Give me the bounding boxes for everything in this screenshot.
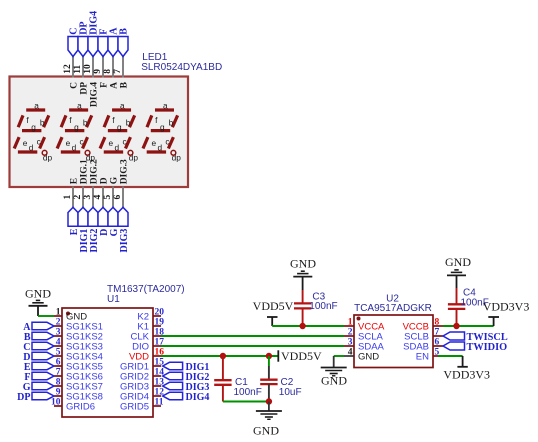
U1 pin 14 GRID2 stub	[153, 375, 161, 377]
digit 3 segment g	[108, 129, 127, 132]
wire GND to U1 pin 1	[38, 315, 54, 317]
svg-text:E: E	[69, 178, 79, 184]
svg-text:7: 7	[56, 368, 61, 378]
port flag DIG4 (U1 right)	[163, 392, 183, 399]
svg-text:a: a	[163, 100, 168, 110]
digit 1 dp circle	[42, 150, 47, 155]
U1 pin 3 SG1KS2 stub	[54, 335, 62, 337]
port flag C (U1 left)	[32, 342, 54, 349]
svg-text:d: d	[157, 143, 162, 153]
U2 pin-1 marker	[357, 317, 361, 321]
svg-text:12: 12	[63, 64, 73, 74]
7-segment digit 1 segment a	[26, 108, 45, 111]
digit 4 segment c	[168, 137, 173, 148]
ground symbol above C4	[454, 269, 458, 271]
U2 pin 2 SCLA stub	[344, 335, 354, 337]
svg-text:10: 10	[51, 398, 61, 408]
port flag E (U1 left)	[32, 362, 54, 369]
port flag DIG4 (top)	[88, 37, 98, 57]
svg-text:2: 2	[73, 195, 83, 200]
U1 pin 19 K1 stub	[153, 325, 161, 327]
port flag G (U1 left)	[32, 382, 54, 389]
svg-text:A: A	[109, 82, 119, 89]
port flag DIG3 (U1 right)	[163, 382, 183, 389]
port flag F (U1 left)	[32, 372, 54, 379]
svg-text:G: G	[109, 176, 119, 184]
U1 pin 9 SG1KS8 stub	[54, 395, 62, 397]
svg-text:1: 1	[63, 195, 73, 200]
svg-text:19: 19	[155, 318, 165, 328]
junction at C2 bottom	[266, 398, 272, 404]
LED1 bottom pin 5 wire	[112, 187, 114, 208]
svg-text:8: 8	[56, 378, 61, 388]
svg-text:5: 5	[103, 195, 113, 200]
U2 pin 5 EN stub	[433, 355, 443, 357]
U1 pin 10 GRID6 stub	[54, 405, 62, 407]
U1 pin 20 K2 stub	[153, 315, 161, 317]
digit 2 segment b	[87, 115, 92, 127]
svg-text:g: g	[31, 122, 36, 132]
svg-text:7: 7	[435, 328, 440, 338]
wire VCCB to VDD3V3	[443, 325, 494, 327]
digit 3 segment f	[104, 115, 109, 127]
digit 1 segment g	[22, 129, 41, 132]
port flag DIG2 (bottom)	[88, 207, 98, 226]
svg-text:DIG.3: DIG.3	[119, 159, 129, 184]
junction at C2 top	[266, 353, 272, 359]
svg-text:6: 6	[56, 358, 61, 368]
svg-text:e: e	[109, 138, 114, 148]
junction at C1 top	[220, 353, 226, 359]
svg-text:4: 4	[93, 195, 103, 200]
U1 pin 13 GRID3 stub	[153, 385, 161, 387]
svg-text:g: g	[117, 122, 122, 132]
svg-text:1: 1	[56, 308, 61, 318]
U2 pin 8 VCCB stub	[433, 325, 443, 327]
power flag VDD3V3 (bottom)	[462, 356, 464, 367]
svg-text:B: B	[119, 81, 129, 88]
digit 4 segment b	[172, 115, 177, 127]
svg-text:DP: DP	[79, 82, 89, 95]
svg-text:GND: GND	[321, 374, 347, 388]
digit 4 segment g	[151, 129, 170, 132]
U2 pin 3 SDAA stub	[344, 345, 354, 347]
svg-text:F: F	[99, 82, 109, 88]
svg-text:TM1637(TA2007): TM1637(TA2007)	[107, 284, 185, 295]
port flag A (U1 left)	[32, 322, 54, 329]
svg-text:3: 3	[83, 195, 93, 200]
IC U2 TCA9517ADGKR body	[354, 315, 433, 368]
ground symbol below C2	[268, 402, 270, 412]
LED1 bottom pin 6 wire	[122, 187, 124, 208]
digit 4 segment e	[143, 137, 148, 148]
U1 pin 6 SG1KS5 stub	[54, 365, 62, 367]
svg-text:GND: GND	[445, 255, 471, 269]
capacitor C4	[456, 288, 458, 304]
U2 pin 4 GND stub	[344, 355, 354, 357]
svg-text:VDD3V3: VDD3V3	[443, 367, 490, 381]
U1 pin 15 GRID1 stub	[153, 365, 161, 367]
svg-text:100nF: 100nF	[234, 387, 262, 398]
svg-text:2: 2	[348, 328, 353, 338]
svg-text:e: e	[66, 138, 71, 148]
svg-text:d: d	[72, 143, 77, 153]
U2 pin 7 SCLB stub	[433, 335, 443, 337]
U1 pin 5 SG1KS4 stub	[54, 355, 62, 357]
capacitor C3	[302, 290, 304, 303]
wire C1 bottom to C2 bottom	[223, 401, 269, 403]
svg-text:g: g	[74, 122, 79, 132]
svg-text:9: 9	[93, 69, 103, 74]
7-segment digit 4 segment a	[155, 108, 174, 111]
svg-text:2: 2	[56, 318, 61, 328]
svg-text:EN: EN	[416, 352, 429, 363]
wire EN to VDD3V3	[438, 355, 463, 357]
port flag DIG1 (U1 right)	[163, 362, 183, 369]
port flag B (top)	[118, 37, 128, 57]
svg-text:10: 10	[83, 64, 93, 74]
ground symbol above C3	[301, 270, 305, 272]
power flag VDD3V3 (top)	[488, 316, 499, 318]
svg-text:10uF: 10uF	[279, 387, 302, 398]
U1 pin 4 SG1KS3 stub	[54, 345, 62, 347]
digit 1 segment b	[44, 115, 49, 127]
svg-text:3: 3	[56, 328, 61, 338]
svg-text:GND: GND	[290, 257, 316, 271]
digit 2 dp circle	[85, 150, 90, 155]
IC U1 TM1637 body	[62, 308, 153, 417]
port flag B (U1 left)	[32, 332, 54, 339]
svg-text:c: c	[122, 137, 126, 147]
port flag DIG2 (U1 right)	[163, 372, 183, 379]
svg-text:g: g	[160, 122, 165, 132]
digit 1 segment c	[40, 137, 45, 148]
wire VDD5V to U2 pin 1	[272, 325, 344, 327]
U1 pin 17 DIO stub	[153, 345, 161, 347]
U1 pin 1 GND stub	[54, 315, 62, 317]
U2 pin 6 SDAB stub	[433, 345, 443, 347]
capacitor C1	[222, 356, 224, 380]
port flag C (top)	[68, 37, 78, 57]
port flag DIG3 (bottom)	[118, 207, 128, 226]
digit 2 segment f	[61, 115, 66, 127]
svg-text:GND: GND	[358, 352, 379, 363]
svg-text:4: 4	[56, 338, 61, 348]
svg-text:VDD5V: VDD5V	[281, 349, 322, 363]
svg-text:DIG.1: DIG.1	[79, 159, 89, 184]
digit 2 segment e	[57, 137, 62, 148]
LED1 top pin 10 wire	[92, 57, 94, 78]
svg-text:7: 7	[113, 69, 123, 74]
port flag DP (U1 left)	[32, 392, 54, 399]
LED1 bottom pin 1 wire	[72, 187, 74, 208]
port flag D (U1 left)	[32, 352, 54, 359]
U2 pin 1 VCCA stub	[344, 325, 354, 327]
svg-text:8: 8	[435, 318, 440, 328]
junction at C4 bottom	[453, 323, 459, 329]
svg-text:8: 8	[103, 69, 113, 74]
port flag TWISCL	[443, 332, 465, 340]
svg-text:3: 3	[348, 338, 353, 348]
svg-text:DP: DP	[17, 392, 30, 403]
svg-text:a: a	[77, 100, 82, 110]
digit 4 segment f	[147, 115, 152, 127]
U1 pin 16 VDD stub	[153, 355, 161, 357]
svg-text:d: d	[29, 143, 34, 153]
port flag F (top)	[98, 37, 108, 57]
U1 pin 7 SG1KS6 stub	[54, 375, 62, 377]
port flag TWIDIO	[443, 342, 465, 350]
digit 3 segment e	[100, 137, 105, 148]
svg-text:GRID5: GRID5	[120, 402, 149, 413]
LED1 top pin 9 wire	[102, 57, 104, 78]
svg-text:DIG4: DIG4	[186, 392, 210, 403]
svg-text:DIG.4: DIG.4	[89, 82, 99, 107]
power flag VDD5V at C1/C2 rail	[277, 350, 279, 361]
junction at C3 bottom	[299, 323, 305, 329]
LED1 top pin 11 wire	[82, 57, 84, 78]
digit 2 segment d	[61, 150, 80, 153]
port flag A (top)	[108, 37, 118, 57]
digit 3 segment c	[125, 137, 130, 148]
port flag DIG1 (bottom)	[78, 207, 88, 226]
ground symbol at U2 pin 4	[321, 367, 347, 369]
svg-text:dp: dp	[86, 153, 96, 163]
svg-text:11: 11	[155, 398, 164, 408]
svg-text:VDD3V3: VDD3V3	[483, 300, 530, 314]
svg-text:dp: dp	[172, 153, 182, 163]
capacitor C2	[268, 356, 270, 366]
digit 4 dp circle	[171, 150, 176, 155]
port flag E (bottom)	[68, 207, 78, 226]
LED1 top pin 7 wire	[122, 57, 124, 78]
U2 GND pin wire	[334, 355, 344, 357]
svg-text:a: a	[120, 100, 125, 110]
svg-text:TWIDIO: TWIDIO	[467, 342, 508, 353]
svg-text:e: e	[23, 138, 28, 148]
7-segment digit 3 segment a	[112, 108, 131, 111]
svg-text:1: 1	[348, 318, 353, 328]
wire CLK net (U1.18 to U2.2)	[161, 335, 344, 337]
svg-text:6: 6	[113, 195, 123, 200]
digit 2 segment c	[83, 137, 88, 148]
U1 pin 11 GRID5 stub	[153, 405, 161, 407]
digit 1 segment f	[18, 115, 23, 127]
display LED1 body	[10, 77, 189, 188]
svg-text:a: a	[34, 100, 39, 110]
power flag VDD5V near C3	[267, 316, 278, 318]
svg-text:c: c	[80, 137, 84, 147]
svg-text:6: 6	[435, 338, 440, 348]
U1 pin 18 CLK stub	[153, 335, 161, 337]
wire VDD5V net from U1.16	[161, 355, 278, 357]
LED1 bottom pin 2 wire	[82, 187, 84, 208]
digit 1 segment d	[18, 150, 37, 153]
U1 pin-1 marker	[66, 312, 70, 316]
svg-text:C: C	[69, 82, 79, 89]
svg-text:dp: dp	[129, 153, 139, 163]
digit 1 segment e	[14, 137, 19, 148]
svg-text:U1: U1	[107, 294, 120, 305]
LED1 top pin 8 wire	[112, 57, 114, 78]
svg-text:B: B	[119, 28, 130, 35]
svg-text:b: b	[83, 118, 88, 128]
svg-text:c: c	[37, 137, 41, 147]
svg-text:9: 9	[56, 388, 61, 398]
svg-text:b: b	[40, 118, 45, 128]
wire DIO net (U1.17 to U2.3)	[161, 345, 344, 347]
svg-text:dp: dp	[43, 153, 53, 163]
ground symbol at U1 pin 1	[37, 306, 39, 316]
svg-text:d: d	[115, 143, 120, 153]
svg-text:11: 11	[73, 65, 83, 74]
svg-text:GND: GND	[253, 423, 279, 437]
LED1 bottom pin 3 wire	[92, 187, 94, 208]
digit 3 segment d	[104, 150, 123, 153]
svg-text:b: b	[126, 118, 131, 128]
svg-text:100nF: 100nF	[309, 301, 337, 312]
svg-text:SLR0524DYA1BD: SLR0524DYA1BD	[141, 62, 222, 73]
svg-text:VDD5V: VDD5V	[253, 299, 294, 313]
digit 3 segment b	[129, 115, 134, 127]
svg-text:20: 20	[155, 308, 165, 318]
svg-text:DIG.2: DIG.2	[89, 159, 99, 184]
svg-text:TCA9517ADGKR: TCA9517ADGKR	[354, 303, 432, 314]
svg-text:5: 5	[56, 348, 61, 358]
digit 4 segment d	[147, 150, 166, 153]
svg-text:4: 4	[348, 348, 353, 358]
svg-text:c: c	[165, 137, 169, 147]
svg-text:e: e	[151, 138, 156, 148]
port flag D (bottom)	[98, 207, 108, 226]
svg-text:GND: GND	[25, 287, 51, 301]
port flag DP (top)	[78, 37, 88, 57]
svg-text:D: D	[99, 177, 109, 184]
LED1 top pin 12 wire	[72, 57, 74, 78]
digit 2 segment g	[65, 129, 84, 132]
7-segment digit 2 segment a	[69, 108, 88, 111]
U1 pin 2 SG1KS1 stub	[54, 325, 62, 327]
digit 3 dp circle	[128, 150, 133, 155]
svg-text:GRID6: GRID6	[66, 402, 95, 413]
U1 pin 12 GRID4 stub	[153, 395, 161, 397]
LED1 bottom pin 4 wire	[102, 187, 104, 208]
port flag G (bottom)	[108, 207, 118, 226]
U1 pin 8 SG1KS7 stub	[54, 385, 62, 387]
svg-text:DIG3: DIG3	[119, 229, 130, 253]
svg-text:b: b	[169, 118, 174, 128]
